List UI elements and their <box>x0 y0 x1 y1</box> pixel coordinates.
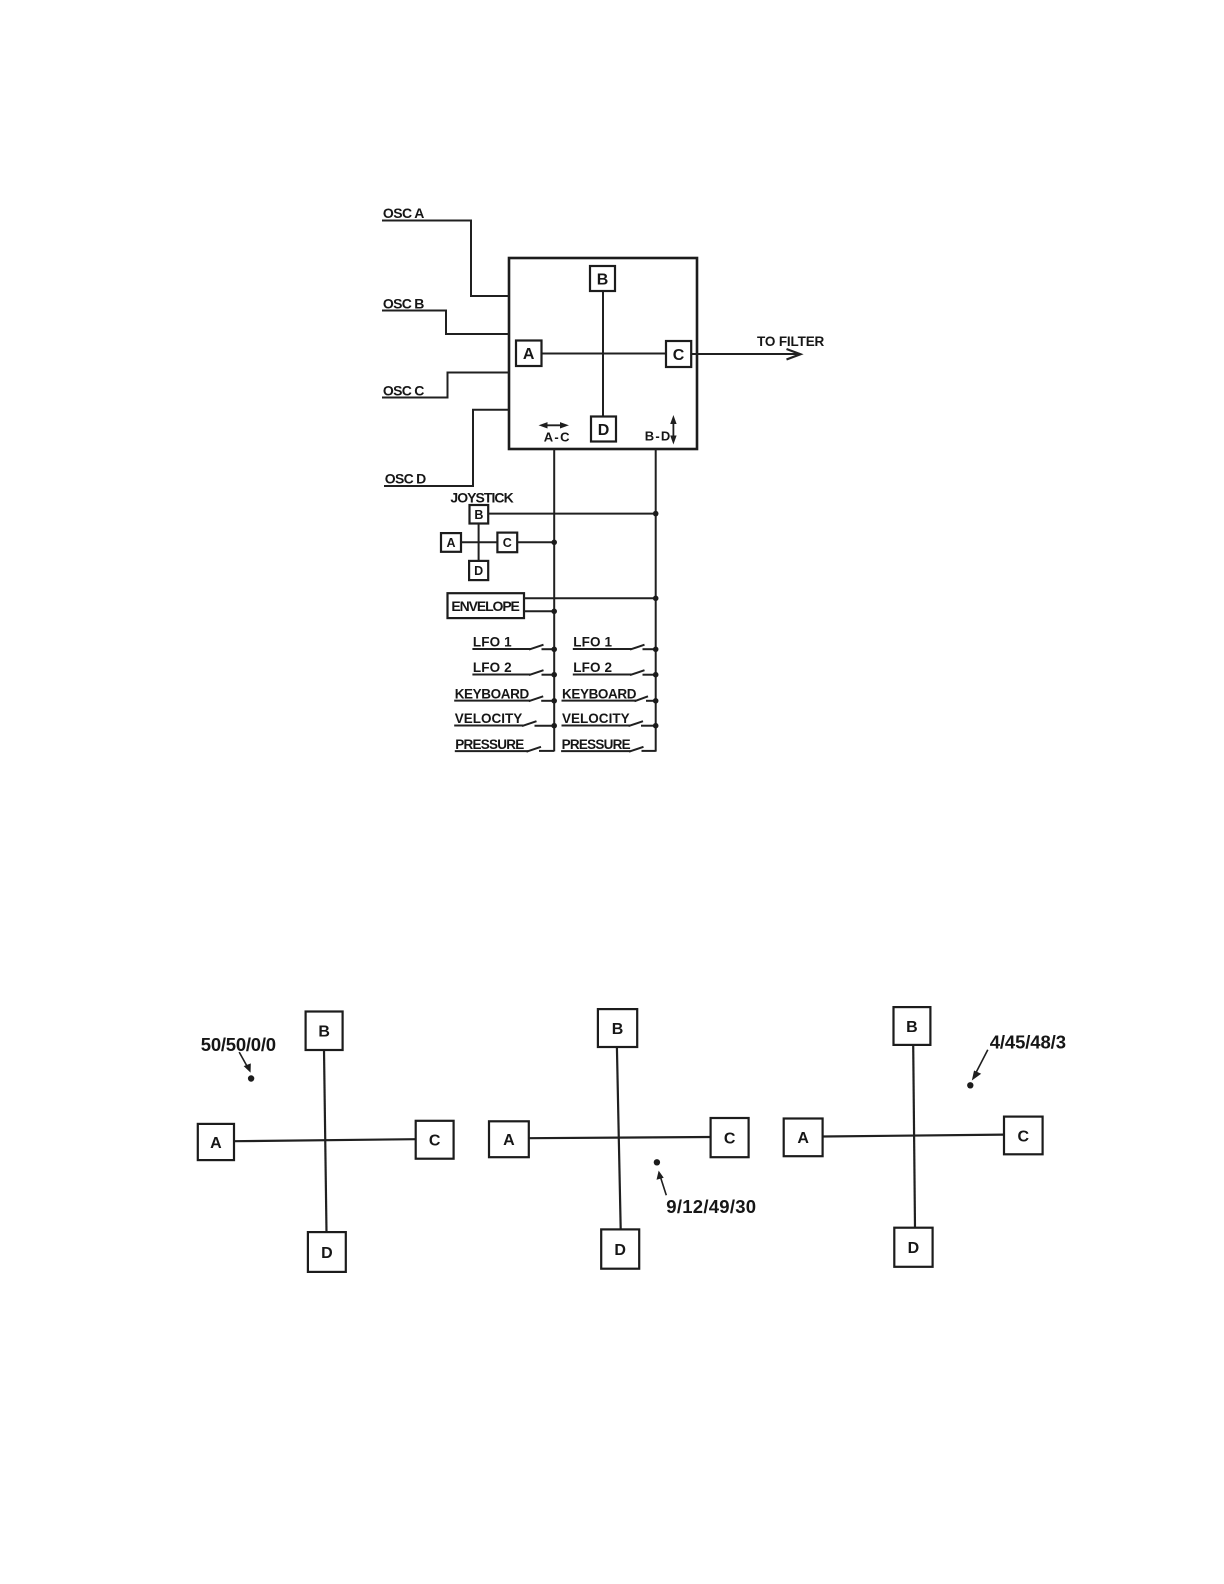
node C box (mixer) <box>666 341 691 367</box>
envelope box <box>448 593 525 618</box>
wire OSC B input <box>382 311 509 335</box>
junction dot KEYBOARD right bus <box>653 698 659 704</box>
cross 1 horizontal wire <box>234 1139 416 1141</box>
switch LFO 2 left <box>472 670 554 675</box>
svg-text:C: C <box>673 347 685 364</box>
wire envelope to right bus <box>524 597 656 599</box>
wire A-C horizontal (mixer) <box>541 353 666 355</box>
node B box (example 3) <box>894 1007 931 1045</box>
svg-text:B: B <box>906 1019 918 1036</box>
wire joystick B to right bus <box>488 513 656 515</box>
junction dot VELOCITY left bus <box>551 723 557 729</box>
svg-text:D: D <box>614 1242 626 1259</box>
svg-text:OSC C: OSC C <box>383 382 425 398</box>
node D box (example 3) <box>894 1228 932 1267</box>
switch KEYBOARD right <box>562 696 656 701</box>
wire B-D vertical (mixer) <box>602 291 604 417</box>
svg-text:C: C <box>724 1130 736 1147</box>
svg-text:D: D <box>908 1240 920 1257</box>
switch LFO 1 right <box>573 645 656 650</box>
svg-text:A: A <box>797 1130 809 1147</box>
joystick node A box <box>441 533 461 552</box>
wire OSC C input <box>382 373 509 398</box>
svg-text:50/50/0/0: 50/50/0/0 <box>201 1034 276 1055</box>
switch KEYBOARD left <box>454 696 554 701</box>
svg-text:LFO 1: LFO 1 <box>573 635 612 650</box>
cross 3 vertical wire <box>913 1045 915 1228</box>
switch VELOCITY left <box>454 721 554 726</box>
svg-text:VELOCITY: VELOCITY <box>455 711 523 726</box>
svg-text:D: D <box>598 422 610 439</box>
node B box (example 2) <box>598 1009 637 1047</box>
svg-text:VELOCITY: VELOCITY <box>562 711 630 726</box>
switch LFO 1 left <box>472 645 554 650</box>
position dot example 3 <box>967 1082 973 1088</box>
node C box (example 1) <box>416 1121 454 1159</box>
svg-text:C: C <box>429 1133 441 1150</box>
svg-text:OSC A: OSC A <box>383 205 425 221</box>
svg-text:D: D <box>321 1245 333 1262</box>
node C box (example 2) <box>711 1118 749 1157</box>
svg-text:A: A <box>210 1135 222 1152</box>
junction dot joystick B / right bus <box>653 511 659 517</box>
svg-text:LFO 1: LFO 1 <box>473 635 512 650</box>
svg-text:KEYBOARD: KEYBOARD <box>562 686 637 701</box>
svg-text:B: B <box>597 271 609 288</box>
wire to filter output <box>691 353 799 355</box>
svg-text:C: C <box>503 536 512 550</box>
svg-text:KEYBOARD: KEYBOARD <box>455 686 530 701</box>
switch VELOCITY right <box>562 721 656 726</box>
node A box (example 1) <box>198 1124 234 1160</box>
svg-text:A: A <box>446 536 455 550</box>
bus wire left (A-C control) <box>553 449 555 751</box>
node D box (example 1) <box>308 1232 346 1272</box>
junction dot LFO 2 right bus <box>653 672 659 678</box>
junction dot envelope / right bus <box>653 596 659 602</box>
svg-text:C: C <box>1018 1128 1030 1145</box>
joystick node C box <box>497 533 517 553</box>
cross 2 horizontal wire <box>529 1137 711 1138</box>
cross 1 vertical wire <box>324 1050 327 1232</box>
cross 3 horizontal wire <box>823 1135 1004 1137</box>
junction dot joystick C / left bus <box>551 540 557 546</box>
node D box (example 2) <box>601 1229 639 1268</box>
wire joystick C to left bus <box>517 541 554 543</box>
leader arrow example 2 <box>657 1172 666 1195</box>
svg-text:ENVELOPE: ENVELOPE <box>451 598 520 614</box>
joystick node D box <box>469 561 488 580</box>
svg-text:A: A <box>523 346 535 363</box>
svg-text:OSC B: OSC B <box>383 295 425 311</box>
switch PRESSURE right <box>561 747 656 752</box>
svg-text:4/45/48/3: 4/45/48/3 <box>990 1031 1066 1052</box>
svg-text:A-C: A-C <box>544 429 570 444</box>
svg-text:OSC D: OSC D <box>385 471 427 487</box>
switch LFO 2 right <box>573 670 656 675</box>
node C box (example 3) <box>1004 1117 1043 1155</box>
wire envelope to left bus <box>524 610 554 612</box>
node A box (mixer) <box>516 341 542 367</box>
svg-text:PRESSURE: PRESSURE <box>455 737 524 752</box>
svg-text:TO FILTER: TO FILTER <box>757 334 825 349</box>
node D box (mixer) <box>591 417 616 442</box>
svg-text:JOYSTICK: JOYSTICK <box>450 490 513 506</box>
node A box (example 3) <box>784 1119 823 1157</box>
node A box (example 2) <box>489 1121 529 1157</box>
junction dot envelope / left bus <box>551 609 557 615</box>
svg-text:B: B <box>612 1021 624 1038</box>
svg-text:A: A <box>503 1132 515 1149</box>
svg-text:9/12/49/30: 9/12/49/30 <box>666 1196 756 1217</box>
junction dot LFO 2 left bus <box>551 672 557 678</box>
joystick node B box <box>470 505 489 524</box>
B-D pan arrow (up-down) <box>671 417 676 444</box>
leader arrow example 1 <box>239 1052 250 1071</box>
junction dot VELOCITY right bus <box>653 723 659 729</box>
svg-text:B: B <box>318 1024 330 1041</box>
junction dot LFO 1 right bus <box>653 647 659 653</box>
A-C pan arrow (left-right) <box>540 423 568 428</box>
node B box (mixer) <box>590 266 615 291</box>
svg-text:LFO 2: LFO 2 <box>473 660 512 675</box>
mixer matrix box <box>509 258 697 449</box>
position dot example 2 <box>654 1159 660 1165</box>
arrowhead to filter <box>787 349 801 360</box>
junction dot LFO 1 left bus <box>551 647 557 653</box>
joystick cross vertical wire <box>478 524 480 561</box>
position dot example 1 <box>248 1075 254 1081</box>
wire OSC D input <box>384 410 509 486</box>
junction dot KEYBOARD left bus <box>551 698 557 704</box>
wire OSC A input <box>382 221 509 297</box>
svg-text:B-D: B-D <box>645 429 671 444</box>
svg-text:B: B <box>474 508 483 522</box>
cross 2 vertical wire <box>617 1047 621 1229</box>
svg-text:LFO 2: LFO 2 <box>573 660 612 675</box>
joystick cross horizontal wire <box>461 541 497 543</box>
switch PRESSURE left <box>455 747 554 752</box>
leader arrow example 3 <box>973 1050 988 1080</box>
svg-text:PRESSURE: PRESSURE <box>562 737 631 752</box>
svg-text:D: D <box>474 564 483 578</box>
node B box (example 1) <box>306 1012 343 1051</box>
bus wire right (B-D control) <box>655 449 657 752</box>
